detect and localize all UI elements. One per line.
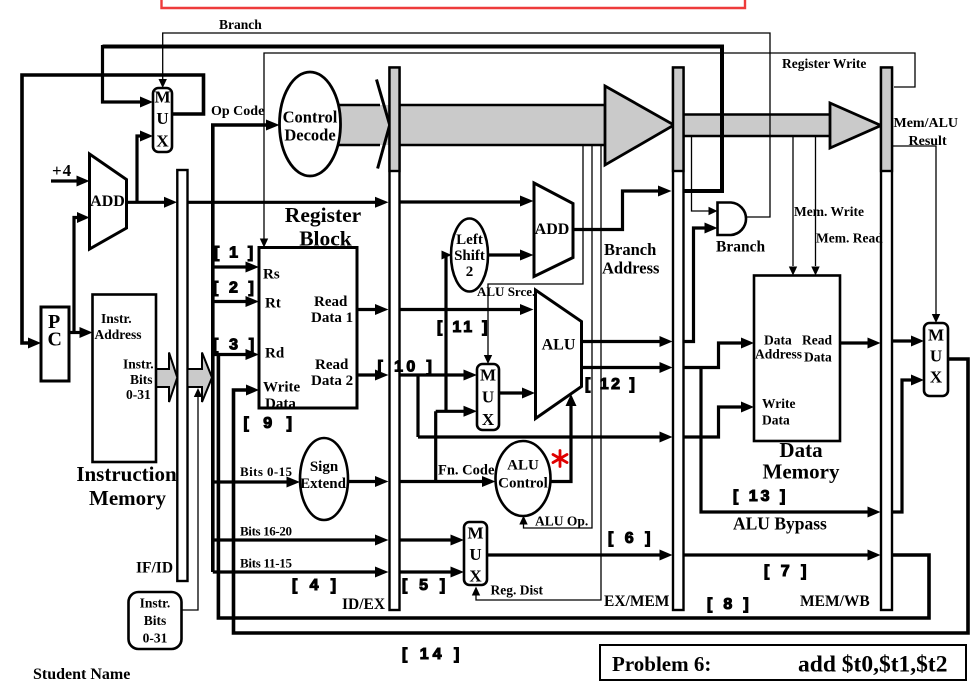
svg-text:[ 14 ]: [ 14 ]	[402, 646, 463, 663]
svg-text:Instruction: Instruction	[76, 462, 177, 486]
svg-text:Mem. Read: Mem. Read	[816, 231, 883, 246]
svg-text:[ 8 ]: [ 8 ]	[707, 596, 752, 613]
svg-text:Problem 6:: Problem 6:	[612, 652, 711, 676]
svg-text:Rd: Rd	[265, 346, 285, 362]
svg-text:[ 6 ]: [ 6 ]	[608, 530, 654, 547]
svg-text:Control: Control	[498, 476, 548, 492]
svg-text:X: X	[156, 132, 169, 151]
svg-text:Instr.: Instr.	[140, 596, 171, 611]
svg-text:Read: Read	[802, 333, 832, 348]
svg-text:Bits: Bits	[144, 613, 167, 628]
svg-text:Mem/ALU: Mem/ALU	[894, 116, 959, 131]
svg-text:[ 7 ]: [ 7 ]	[764, 563, 810, 580]
svg-text:ADD: ADD	[90, 193, 125, 210]
svg-text:X: X	[469, 567, 482, 586]
svg-text:Data: Data	[804, 350, 832, 365]
svg-text:Extend: Extend	[300, 476, 347, 492]
svg-text:ID/EX: ID/EX	[342, 596, 386, 613]
svg-text:Read: Read	[314, 294, 348, 310]
svg-text:Data 1: Data 1	[311, 310, 353, 326]
svg-text:Fn. Code: Fn. Code	[438, 463, 495, 479]
svg-text:ALU Bypass: ALU Bypass	[733, 514, 827, 534]
svg-text:Shift: Shift	[454, 248, 485, 264]
svg-text:Branch: Branch	[219, 17, 262, 32]
svg-text:[ 4 ]: [ 4 ]	[292, 577, 340, 594]
svg-text:ALU Srce.: ALU Srce.	[477, 284, 535, 299]
svg-text:[ 10 ]: [ 10 ]	[378, 359, 436, 376]
svg-text:Reg. Dist: Reg. Dist	[491, 583, 544, 598]
svg-text:Rs: Rs	[263, 267, 280, 283]
svg-text:U: U	[482, 388, 494, 407]
svg-text:Branch: Branch	[604, 240, 656, 259]
svg-text:Left: Left	[456, 232, 483, 248]
svg-text:C: C	[48, 329, 62, 351]
svg-text:Address: Address	[95, 327, 142, 342]
svg-text:X: X	[930, 368, 943, 387]
svg-text:X: X	[482, 410, 495, 429]
svg-text:Bits 11-15: Bits 11-15	[240, 556, 293, 571]
svg-text:Mem. Write: Mem. Write	[794, 204, 864, 219]
svg-text:Sign: Sign	[310, 459, 339, 475]
svg-text:ALU: ALU	[507, 458, 539, 474]
svg-text:Instr.: Instr.	[123, 357, 154, 372]
svg-text:Write: Write	[263, 380, 301, 396]
svg-text:+4: +4	[52, 161, 72, 180]
svg-text:[ 2 ]: [ 2 ]	[213, 280, 257, 297]
svg-text:Read: Read	[315, 357, 349, 373]
svg-text:M: M	[480, 366, 496, 385]
svg-text:Write: Write	[762, 396, 796, 411]
svg-text:Address: Address	[755, 347, 802, 362]
svg-text:0-31: 0-31	[126, 387, 151, 402]
svg-text:0-31: 0-31	[143, 631, 168, 646]
svg-text:M: M	[928, 326, 944, 345]
svg-text:Bits 0-15: Bits 0-15	[240, 464, 293, 479]
svg-text:Data: Data	[265, 396, 296, 412]
svg-text:Block: Block	[299, 227, 352, 251]
svg-text:Instr.: Instr.	[101, 311, 132, 326]
svg-text:[ 11 ]: [ 11 ]	[437, 319, 490, 336]
svg-text:[ 12 ]: [ 12 ]	[585, 376, 637, 393]
svg-text:[ 9 ]: [ 9 ]	[244, 415, 297, 432]
svg-text:[ 1 ]: [ 1 ]	[214, 245, 256, 262]
svg-text:Memory: Memory	[89, 486, 166, 510]
svg-text:Control: Control	[283, 108, 338, 127]
svg-text:Result: Result	[909, 134, 947, 149]
svg-text:Data: Data	[762, 413, 790, 428]
svg-text:Bits 16-20: Bits 16-20	[240, 524, 292, 539]
svg-text:[ 13 ]: [ 13 ]	[733, 488, 788, 505]
svg-text:ALU Op.: ALU Op.	[535, 514, 588, 529]
svg-text:Address: Address	[602, 259, 660, 278]
svg-text:U: U	[930, 347, 942, 366]
svg-text:IF/ID: IF/ID	[136, 560, 173, 577]
svg-text:U: U	[156, 109, 168, 128]
svg-text:Register: Register	[285, 203, 362, 227]
svg-text:M: M	[154, 88, 170, 107]
svg-text:U: U	[469, 545, 481, 564]
svg-text:EX/MEM: EX/MEM	[604, 593, 670, 610]
svg-text:Data 2: Data 2	[311, 373, 353, 389]
svg-text:Op Code: Op Code	[211, 104, 264, 119]
svg-text:Register Write: Register Write	[782, 56, 866, 71]
svg-text:Student Name: Student Name	[33, 666, 130, 682]
svg-text:MEM/WB: MEM/WB	[800, 593, 870, 610]
svg-text:Data: Data	[764, 333, 792, 348]
svg-text:ADD: ADD	[535, 221, 570, 238]
svg-text:2: 2	[466, 264, 474, 280]
svg-text:Branch: Branch	[716, 239, 765, 256]
svg-text:[ 5 ]: [ 5 ]	[402, 577, 449, 594]
svg-text:Memory: Memory	[763, 460, 840, 484]
svg-text:Decode: Decode	[284, 126, 335, 145]
svg-text:Rt: Rt	[265, 296, 281, 312]
svg-text:Data: Data	[779, 438, 823, 462]
svg-text:add $t0,$t1,$t2: add $t0,$t1,$t2	[798, 652, 948, 678]
svg-text:M: M	[467, 524, 483, 543]
svg-text:[ 3 ]: [ 3 ]	[213, 337, 257, 354]
svg-text:Bits: Bits	[130, 372, 153, 387]
svg-text:ALU: ALU	[542, 337, 576, 354]
